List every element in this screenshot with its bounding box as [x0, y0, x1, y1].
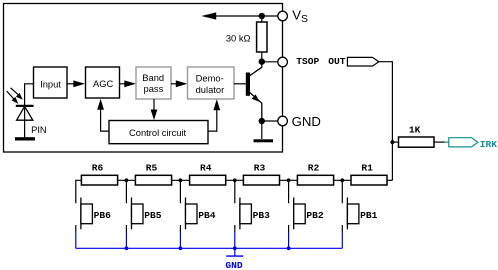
arrow into Demodulator: [176, 80, 188, 87]
arrow into AGC: [73, 80, 85, 87]
svg-text:R4: R4: [200, 162, 212, 173]
svg-text:1K: 1K: [409, 125, 421, 136]
wire GND bus: [76, 247, 343, 249]
node 1K junction: [390, 140, 394, 144]
wire collector node to TSOP OUT pin: [262, 61, 278, 63]
wire AGC to Band pass: [120, 83, 132, 85]
push button PB6: [76, 198, 93, 233]
svg-text:IRK: IRK: [480, 139, 498, 150]
svg-text:R1: R1: [361, 162, 373, 173]
node collector junction: [259, 58, 265, 64]
ground (emitter): [254, 139, 274, 142]
svg-text:PB3: PB3: [253, 210, 271, 221]
block Input: [34, 67, 68, 98]
push button PB1: [342, 198, 359, 233]
svg-text:30 kΩ: 30 kΩ: [226, 33, 251, 43]
node bus junction 1: [125, 246, 129, 250]
node ladder junction 4: [287, 178, 291, 182]
svg-text:GND: GND: [225, 260, 243, 270]
resistor R2: [297, 175, 333, 185]
push button PB2: [289, 198, 306, 233]
node emitter junction: [259, 118, 265, 124]
block Demodulator: [188, 67, 235, 99]
resistor R6: [81, 175, 117, 185]
wire diode to Input: [25, 84, 34, 105]
svg-text:pass: pass: [144, 84, 164, 94]
svg-text:Demo-: Demo-: [196, 73, 224, 83]
pin GND: [278, 116, 288, 126]
ground GND net symbol: [226, 248, 243, 256]
arrow into AGC bottom: [97, 99, 104, 110]
resistor R1: [351, 175, 387, 185]
light ray arrow 1: [11, 88, 23, 100]
push button PB4: [180, 198, 197, 233]
resistor R5: [135, 175, 171, 185]
svg-text:PB4: PB4: [198, 210, 216, 221]
transistor Q1: [246, 62, 262, 122]
node ladder junction 3: [233, 178, 237, 182]
svg-text:R5: R5: [146, 162, 158, 173]
svg-text:AGC: AGC: [93, 79, 114, 89]
wire blue drops to GND bus: [76, 232, 343, 248]
wire Band pass to Control circuit: [153, 99, 155, 114]
svg-text:dulator: dulator: [196, 85, 225, 95]
wire Band pass to Demodulator: [171, 83, 183, 85]
resistor 1K: [399, 137, 435, 147]
push button PB5: [126, 198, 143, 233]
svg-text:TSOP: TSOP: [296, 56, 319, 67]
node bus junction 3: [233, 246, 237, 250]
svg-text:GND: GND: [292, 114, 321, 129]
block Band pass: [136, 67, 171, 99]
wire emitter node to GND pin: [262, 120, 278, 122]
net tag OUT: [347, 57, 379, 66]
photodiode D1: [16, 106, 34, 138]
wire emitter node to ground: [261, 121, 263, 139]
arrow into Demodulator bottom: [213, 99, 220, 110]
svg-text:Input: Input: [40, 79, 61, 89]
wire resistor ladder row: [76, 180, 393, 203]
push button PB3: [235, 198, 252, 233]
node ladder junction 5: [340, 178, 344, 182]
resistor R4: [190, 175, 226, 185]
wire Vs rail: [216, 15, 278, 17]
svg-text:PB5: PB5: [144, 210, 162, 221]
block Control circuit: [109, 121, 208, 144]
node ladder junction 1: [125, 178, 129, 182]
net tag IRK: [449, 138, 478, 147]
ground (photodiode): [15, 137, 35, 140]
resistor R3: [243, 175, 279, 185]
svg-text:PB1: PB1: [360, 210, 378, 221]
svg-text:PB2: PB2: [306, 210, 324, 221]
wire 1K to IRK tag: [434, 141, 445, 143]
svg-text:Control circuit: Control circuit: [129, 128, 187, 138]
arrow to internal supply: [201, 12, 216, 19]
resistor 30k vertical wires: [261, 16, 263, 22]
pin Vs: [278, 11, 288, 21]
wire Control circuit to AGC: [101, 106, 109, 131]
svg-text:R3: R3: [254, 162, 266, 173]
wire Control circuit to Demodulator: [208, 106, 217, 131]
wire teal stub: [445, 141, 449, 143]
node ladder junction 2: [179, 178, 183, 182]
TSOP module outline box: [4, 4, 283, 153]
svg-text:R2: R2: [308, 162, 320, 173]
svg-text:PIN: PIN: [31, 125, 47, 135]
svg-text:Band: Band: [142, 73, 164, 83]
svg-text:R6: R6: [92, 162, 104, 173]
node bus junction 4: [287, 246, 291, 250]
block AGC U1: [86, 67, 120, 98]
pin TSOP OUT: [278, 57, 288, 67]
svg-text:PB6: PB6: [94, 210, 112, 221]
wire junctions down to push buttons: [126, 180, 342, 203]
arrow into Band pass: [124, 80, 136, 87]
light ray arrow 2: [7, 91, 19, 104]
svg-text:OUT: OUT: [328, 56, 346, 67]
wire Demodulator to transistor base: [234, 83, 246, 85]
wire to 1K: [392, 141, 398, 143]
arrow into Control circuit: [151, 110, 158, 121]
wire OUT tag to R1 column: [379, 62, 393, 181]
node Vs junction: [259, 13, 265, 19]
resistor 30k: [257, 22, 267, 52]
node bus junction 2: [179, 246, 183, 250]
wire Input to AGC: [67, 83, 79, 85]
